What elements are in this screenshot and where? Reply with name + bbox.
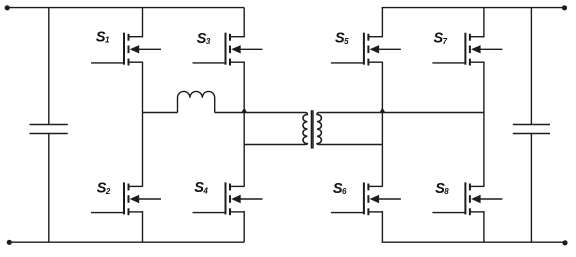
transistor S6 [331, 182, 401, 215]
transformer T1 secondary winding [317, 113, 321, 145]
wire transformer secondary top to leg D [319, 112, 484, 114]
svg-text:S8: S8 [435, 181, 449, 197]
svg-text:S7: S7 [434, 31, 448, 47]
svg-text:S3: S3 [197, 31, 211, 47]
node P2 negative input terminal [7, 240, 12, 245]
wire leg A midpoint to inductor [143, 112, 178, 114]
wire leg A source of S2 down [142, 211, 144, 242]
wire leg B source of S4 down [243, 211, 245, 242]
node P1 positive input terminal [5, 5, 10, 10]
svg-text:S2: S2 [97, 180, 111, 196]
capacitor C2 output [513, 8, 550, 243]
wire leg A S1 source to S2 drain [142, 62, 144, 187]
wire bottom rail right bridge [382, 241, 565, 243]
wire leg B to transformer primary bottom [244, 144, 305, 146]
transistor S8 [432, 182, 502, 215]
capacitor C1 input [30, 8, 68, 243]
inductor L1 [178, 91, 215, 112]
wire top rail left bridge [7, 7, 244, 9]
node J2 junction at leg C [380, 108, 386, 113]
svg-text:S6: S6 [333, 181, 347, 197]
svg-text:S5: S5 [335, 31, 349, 47]
transformer T1 core [310, 110, 312, 148]
wire bottom rail left bridge [9, 241, 244, 243]
wire leg A drain of S1 [142, 8, 144, 38]
node P3 positive output terminal [562, 5, 567, 10]
wire transformer secondary bottom to leg C [319, 144, 382, 146]
wire leg C drain of S5 [381, 8, 383, 38]
wire inductor to transformer primary top [215, 112, 305, 114]
wire leg B S3 source to S4 drain [243, 62, 245, 187]
node J1 junction at leg B [241, 108, 247, 113]
transistor S2 [91, 182, 161, 215]
wire leg C S5 source to S6 drain [381, 62, 383, 187]
svg-text:S4: S4 [194, 180, 208, 196]
wire top rail right bridge [382, 7, 565, 9]
transistor S1 [91, 33, 161, 66]
wire leg D drain of S7 [483, 8, 485, 38]
wire leg D S7 source to S8 drain [483, 62, 485, 187]
wire leg B drain of S3 [243, 8, 245, 38]
svg-text:S1: S1 [96, 29, 110, 45]
wire leg C source of S6 down [381, 211, 383, 242]
transistor S7 [432, 33, 502, 66]
wire leg D source of S8 down [483, 211, 485, 242]
transistor S5 [331, 33, 401, 66]
node P4 negative output terminal [562, 240, 567, 245]
transistor S3 [193, 33, 263, 66]
transformer T1 primary winding [303, 113, 307, 145]
transistor S4 [193, 182, 263, 215]
